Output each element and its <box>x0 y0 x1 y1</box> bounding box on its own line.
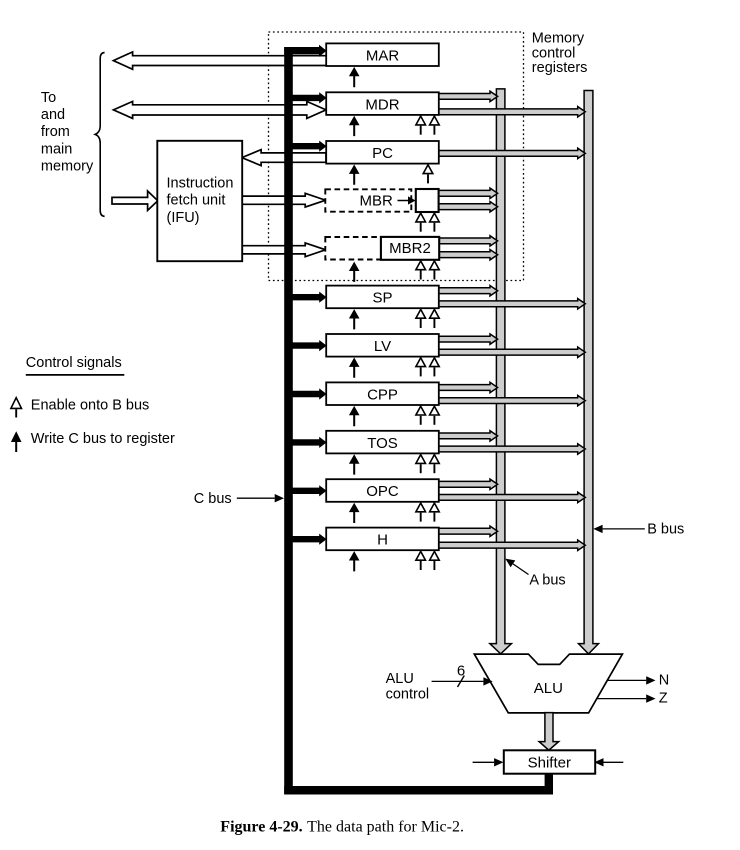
wire C bus write arm into MDR <box>292 92 327 103</box>
svg-text:from: from <box>41 124 70 140</box>
enable onto bus control arrow 1 for MBR2 <box>416 261 426 270</box>
svg-text:MBR2: MBR2 <box>389 240 431 257</box>
IFU instruction fetch unit box <box>157 141 242 261</box>
register CPP <box>326 382 439 405</box>
enable onto bus control arrow 1 for MBR <box>416 213 426 222</box>
wire C bus write arm into H <box>292 534 327 545</box>
wire MBR to A bus lower <box>438 202 498 212</box>
svg-text:and: and <box>41 107 65 123</box>
svg-text:B bus: B bus <box>647 521 684 537</box>
wire MBR2 to A bus lower <box>438 250 497 260</box>
svg-text:LV: LV <box>374 338 391 355</box>
enable onto bus control arrow 1 for LV <box>416 358 426 367</box>
register MBR 1-byte box <box>416 189 439 212</box>
svg-text:Shifter: Shifter <box>528 754 571 771</box>
B bus vertical bus bar <box>579 91 599 654</box>
write C bus control arrow for MDR <box>349 116 360 136</box>
svg-text:CPP: CPP <box>367 386 398 403</box>
svg-text:A bus: A bus <box>529 573 565 589</box>
svg-text:main: main <box>41 141 72 157</box>
svg-text:6: 6 <box>457 663 465 680</box>
wire shifter right control <box>604 761 624 763</box>
wire MDR to B bus <box>438 107 585 117</box>
write C bus control arrow for OPC <box>349 503 360 523</box>
wire C bus write arm into OPC <box>292 485 327 496</box>
svg-text:MAR: MAR <box>366 47 400 64</box>
svg-text:registers: registers <box>532 60 588 76</box>
register TOS <box>326 431 439 454</box>
wire PC to B bus <box>438 148 585 158</box>
wire main memory to IFU <box>112 191 158 210</box>
svg-text:MBR: MBR <box>360 192 394 209</box>
wire MDR to/from main memory (data, double-headed) <box>113 101 326 118</box>
wire OPC to A bus <box>438 479 497 489</box>
svg-text:To: To <box>41 90 56 106</box>
legend write-C-bus symbol <box>11 431 22 452</box>
write C bus control arrow for TOS <box>349 454 360 474</box>
svg-text:fetch unit: fetch unit <box>167 193 226 209</box>
enable onto bus control arrow 2 for CPP <box>430 406 440 415</box>
wire ALU N flag output <box>607 679 647 681</box>
register MDR <box>326 92 439 115</box>
enable onto bus control arrow 2 for TOS <box>430 455 440 464</box>
shifter box <box>504 750 595 773</box>
write C bus control arrow for H <box>349 551 360 571</box>
wire MAR to main memory (address out) <box>113 52 326 69</box>
wire MBR label pointer arrow <box>398 200 410 202</box>
enable onto bus control arrow 1 for OPC <box>416 503 426 512</box>
wire H to A bus <box>438 526 497 536</box>
wire ALU output to Shifter <box>539 713 559 751</box>
svg-text:ALU: ALU <box>534 680 563 697</box>
write C bus control arrow for CPP <box>349 406 360 426</box>
wire C bus write arm into LV <box>292 340 327 351</box>
wire CPP to B bus <box>438 395 585 405</box>
register LV <box>326 334 439 357</box>
wire H to B bus <box>438 540 585 550</box>
svg-text:Figure 4-29.The data path for: Figure 4-29.The data path for Mic-2. <box>220 819 464 836</box>
svg-text:memory: memory <box>41 158 94 174</box>
legend enable-onto-B-bus symbol <box>11 398 22 409</box>
svg-text:control: control <box>532 45 576 61</box>
wire ALU Z flag output <box>597 698 646 700</box>
svg-text:ALU: ALU <box>386 671 414 687</box>
C bus (thick black bus line) <box>284 47 293 795</box>
enable onto bus control arrow 2 for OPC <box>430 503 440 512</box>
wire C bus write arm into SP <box>292 292 327 303</box>
enable onto bus control arrow 2 for SP <box>430 309 440 318</box>
wire LV to B bus <box>438 347 585 357</box>
enable onto bus control arrow 2 for H <box>430 551 440 560</box>
wire IFU to MBR <box>242 193 326 207</box>
wire C bus elbow arrow into MAR <box>284 45 326 57</box>
wire ALU control into ALU <box>432 680 484 682</box>
svg-text:N: N <box>659 673 669 689</box>
register MBR2 (dashed shadow box) <box>325 237 411 260</box>
enable onto bus control arrow 1 for MDR <box>416 116 426 125</box>
wire CPP to A bus <box>438 382 497 392</box>
wire MDR to A bus <box>438 91 497 101</box>
svg-text:MDR: MDR <box>365 96 399 113</box>
svg-text:TOS: TOS <box>367 435 398 452</box>
wire LV to A bus <box>438 334 497 344</box>
wire TOS to B bus <box>438 444 585 454</box>
wire TOS to A bus <box>438 431 497 441</box>
wire MBR to A bus upper <box>438 188 498 198</box>
A bus vertical bus bar <box>490 89 512 654</box>
enable onto bus control arrow 2 for LV <box>430 358 440 367</box>
wire SP to A bus <box>438 286 497 296</box>
write C bus control arrow for PC <box>349 165 360 185</box>
wire C bus write arm into PC <box>292 141 327 152</box>
enable onto bus control arrow 1 for SP <box>416 309 426 318</box>
svg-text:Control signals: Control signals <box>26 355 122 371</box>
brace for main memory connections <box>95 53 104 217</box>
wire Shifter output down to C bus <box>545 774 553 790</box>
enable onto bus control arrow 2 for MBR2 <box>430 261 440 270</box>
svg-text:Z: Z <box>659 691 668 707</box>
enable onto bus control arrow 1 for PC <box>423 165 433 174</box>
svg-text:(IFU): (IFU) <box>167 210 200 226</box>
svg-text:SP: SP <box>372 290 392 307</box>
write C bus control arrow for MAR <box>349 67 360 87</box>
register MAR <box>326 43 439 66</box>
register SP <box>326 286 439 309</box>
register PC <box>326 141 439 164</box>
svg-text:Write C bus to register: Write C bus to register <box>31 431 175 447</box>
svg-text:Enable onto B bus: Enable onto B bus <box>31 397 150 413</box>
wire SP to B bus <box>438 299 585 309</box>
svg-text:OPC: OPC <box>366 483 399 500</box>
svg-text:control: control <box>386 687 430 703</box>
enable onto bus control arrow 2 for MDR <box>430 116 440 125</box>
wire MBR2 to A bus upper <box>438 236 497 246</box>
enable onto bus control arrow 1 for TOS <box>416 455 426 464</box>
enable onto bus control arrow 2 for MBR <box>430 213 440 222</box>
svg-text:PC: PC <box>372 145 393 162</box>
wire PC to IFU <box>242 150 326 166</box>
wire OPC to B bus <box>438 492 585 502</box>
svg-text:H: H <box>377 532 388 549</box>
write C bus control arrow for MBR2 (from C bus) <box>349 262 360 282</box>
register MBR2 <box>381 237 439 260</box>
svg-text:Instruction: Instruction <box>167 176 234 192</box>
svg-text:Memory: Memory <box>532 30 585 46</box>
wire C bus write arm into CPP <box>292 388 327 399</box>
register MBR (dashed shadow box) <box>325 189 411 211</box>
svg-text:C bus: C bus <box>194 491 232 507</box>
enable onto bus control arrow 1 for CPP <box>416 406 426 415</box>
op-amp/ALU U1 trapezoid <box>474 654 622 713</box>
wire C bus write arm into TOS <box>292 437 327 448</box>
write C bus control arrow for SP <box>349 309 360 329</box>
wire shifter left control <box>473 761 495 763</box>
write C bus control arrow for LV <box>349 358 360 378</box>
bus width slash 6 <box>458 676 465 688</box>
wire IFU to MBR2 <box>242 243 326 257</box>
register H <box>326 528 439 551</box>
enable onto bus control arrow 1 for H <box>416 551 426 560</box>
memory control registers dotted boundary <box>269 32 524 281</box>
register OPC <box>326 479 439 502</box>
